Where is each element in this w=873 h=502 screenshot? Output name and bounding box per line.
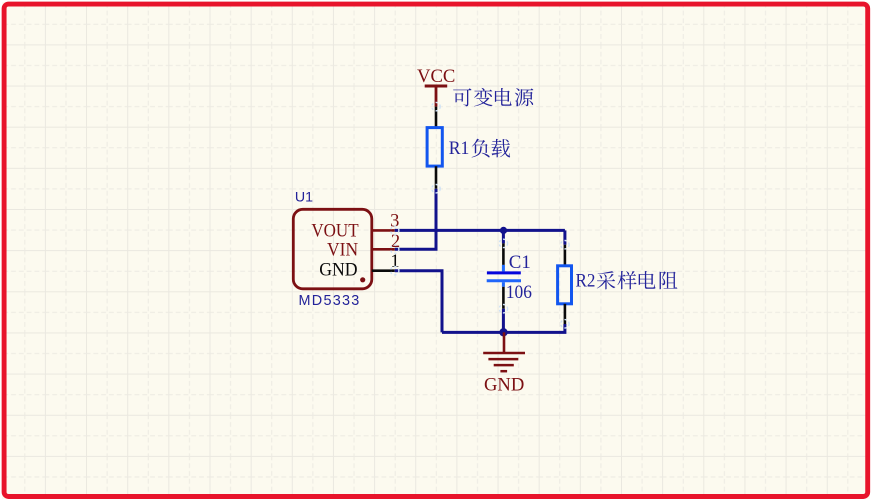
op-amp U1 pin 2 stub bbox=[372, 248, 395, 251]
pin hotspot marker 5 bbox=[432, 185, 440, 193]
pin hotspot marker 3 bbox=[391, 267, 399, 275]
resistor R2 comment 采样电阻 (sampling resistor) bbox=[597, 271, 678, 289]
svg-text:C1: C1 bbox=[509, 252, 531, 273]
svg-text:U1: U1 bbox=[295, 189, 313, 205]
svg-text:1: 1 bbox=[390, 252, 399, 272]
junction node A (top) bbox=[500, 227, 507, 234]
resistor R2 body bbox=[558, 266, 572, 304]
op-amp U1 pin 3 stub bbox=[372, 229, 395, 232]
wire from U1 pin 3 (VOUT) to node A and R2 bbox=[395, 229, 565, 232]
pin hotspot marker 1 bbox=[391, 226, 399, 234]
capacitor C1 top plate bbox=[487, 271, 521, 274]
resistor R2 pin 1 (top) bbox=[564, 245, 567, 266]
svg-text:106: 106 bbox=[506, 282, 532, 303]
capacitor C1 bottom lead bbox=[502, 282, 505, 287]
pin hotspot marker 6 bbox=[499, 239, 507, 247]
resistor R1 comment 负载 (load) bbox=[472, 139, 511, 158]
resistor R2 pin 2 (bottom) bbox=[564, 304, 567, 324]
pin hotspot marker 4 bbox=[432, 102, 440, 110]
ground symbol bar 3 bbox=[494, 364, 514, 367]
resistor R1 pin 1 (top, to VCC) bbox=[435, 107, 438, 128]
net label 可变电源 (variable power source) bbox=[453, 88, 533, 107]
op-amp U1 body outline bbox=[293, 209, 372, 288]
capacitor C1 pin 2 bbox=[502, 287, 505, 309]
power port VCC bar symbol bbox=[425, 85, 448, 88]
resistor R1 pin 2 (bottom) bbox=[435, 166, 438, 189]
wire bottom net bbox=[442, 324, 565, 332]
wire node A vertical to C1 bbox=[502, 230, 505, 243]
ground symbol bar 4 bbox=[500, 370, 507, 373]
svg-text:GND: GND bbox=[319, 259, 357, 280]
capacitor C1 pin 1 bbox=[502, 243, 505, 265]
op-amp U1 polarity dot bbox=[360, 277, 365, 282]
pin hotspot marker 2 bbox=[391, 245, 399, 253]
svg-text:GND: GND bbox=[484, 375, 524, 396]
svg-text:VIN: VIN bbox=[327, 239, 358, 260]
wire C1 bottom to bottom net bbox=[502, 309, 505, 333]
pin hotspot marker 8 bbox=[561, 241, 569, 249]
junction node B (bottom) bbox=[499, 328, 507, 336]
wire R2 top drop bbox=[563, 230, 566, 244]
power port VCC stem bbox=[435, 85, 438, 107]
ground symbol bar 2 bbox=[488, 358, 518, 361]
wire from R1 bottom to U1 pin 2 (VIN) bbox=[395, 189, 436, 250]
svg-text:VCC: VCC bbox=[417, 66, 455, 87]
capacitor C1 bottom plate bbox=[487, 279, 521, 282]
ground symbol stem bbox=[503, 332, 506, 352]
op-amp U1 pin 1 stub bbox=[372, 269, 395, 272]
pin hotspot marker 7 bbox=[499, 305, 507, 313]
wire from U1 pin 1 (GND) down to bottom net bbox=[395, 271, 442, 333]
svg-text:R1: R1 bbox=[449, 138, 470, 159]
ground symbol bar 1 bbox=[483, 352, 525, 355]
capacitor C1 top lead bbox=[502, 265, 505, 272]
pin hotspot marker 9 bbox=[561, 320, 569, 328]
resistor R1 body bbox=[427, 128, 442, 167]
svg-text:R2: R2 bbox=[576, 271, 596, 292]
